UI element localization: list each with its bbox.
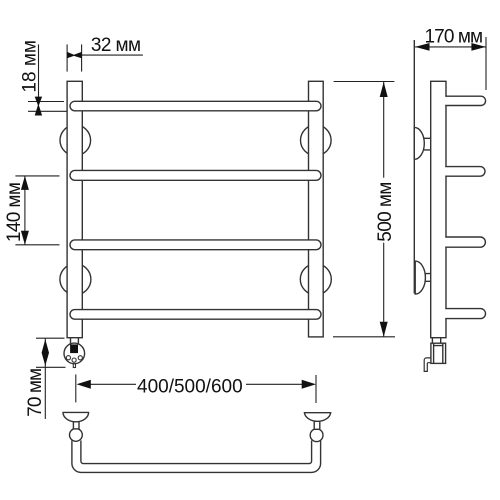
bracket circle lower-left (60, 264, 91, 295)
side bar 4 (445, 309, 447, 317)
bottom view left ball joint (70, 429, 83, 442)
dim 140mm extension line bottom (15, 244, 59, 246)
dim 400/500/600 arrow left (77, 380, 91, 389)
bar 3 front view (70, 240, 321, 250)
svg-text:170 мм: 170 мм (425, 26, 483, 47)
bracket circle upper-left (60, 125, 91, 156)
right post front view (309, 81, 324, 337)
side heating element neck (432, 338, 440, 344)
svg-text:500 мм: 500 мм (375, 182, 396, 242)
wall extension line of side view (413, 40, 415, 294)
dim 400/500/600 dimension line left segment (88, 383, 136, 385)
dim 500mm dimension line upper segment (383, 82, 385, 178)
side view post (431, 81, 446, 337)
dim 70mm extension line top (36, 337, 65, 339)
bar 1 front view (70, 101, 321, 111)
dim 140mm extension line top (15, 175, 59, 177)
dim 500mm dimension line lower segment (383, 243, 385, 337)
dim 18mm extension line top (28, 101, 64, 103)
bottom view right stem (314, 421, 320, 429)
bar 2 front view (70, 170, 321, 180)
heating element neck below left post (71, 338, 79, 344)
side terminal box inner lines (434, 343, 443, 363)
dim 32mm extension line right (81, 44, 83, 71)
svg-text:400/500/600: 400/500/600 (137, 377, 243, 398)
dim 170mm extension line right (485, 37, 487, 90)
dim 170mm dimension line (415, 46, 486, 48)
dim 140mm arrow down (21, 231, 29, 245)
side bracket neck upper (423, 138, 431, 150)
side bar 1 (445, 97, 447, 105)
side bar 3 (445, 238, 447, 247)
side bar 2 (445, 167, 447, 175)
side bracket dome upper (414, 127, 424, 159)
dim 18mm bowtie arrows (35, 97, 42, 116)
dim 32mm bowtie arrows (67, 52, 82, 58)
dim 500mm extension line bottom (333, 336, 395, 338)
dim 18mm dimension line (38, 44, 40, 101)
dim 70mm dimension line (44, 339, 46, 420)
plug pin right (78, 356, 82, 360)
bottom view tube outer outline (72, 441, 321, 473)
power cable (424, 358, 431, 372)
dim 70mm extension line bottom (36, 366, 66, 368)
plug pin middle (72, 358, 76, 362)
side bracket dome lower (415, 261, 425, 294)
dim 500mm extension line top (334, 81, 395, 83)
dim 32mm leader line (82, 54, 143, 56)
svg-text:70 мм: 70 мм (25, 369, 46, 417)
dim 70mm diamond arrows (42, 339, 49, 366)
svg-text:32 мм: 32 мм (91, 35, 141, 56)
plug pin left (66, 356, 70, 360)
side bracket neck lower (425, 274, 431, 282)
bottom view right wall cup (304, 413, 330, 422)
bar 4 front view (70, 310, 321, 320)
bottom view left stem (73, 421, 79, 429)
dim 400/500/600 dimension line right segment (246, 383, 304, 385)
dim 500mm arrow up (380, 82, 388, 97)
bottom view tube inner outline (81, 441, 312, 464)
svg-text:140 мм: 140 мм (4, 183, 25, 243)
dim 400/500/600 tick left (75, 374, 77, 402)
bracket circle lower-right (300, 264, 331, 295)
side terminal box (431, 343, 446, 363)
dim 140mm arrow up (21, 176, 29, 190)
bottom view left wall cup (63, 412, 89, 421)
dim 170mm arrow right (471, 43, 485, 51)
bracket circle upper-right (301, 125, 332, 156)
dim 18mm extension line bottom (28, 110, 67, 112)
plug stem (73, 364, 75, 368)
dim 140mm dimension line (24, 176, 26, 245)
dim 400/500/600 arrow right (302, 380, 316, 389)
dim 32mm extension line left (66, 44, 68, 71)
dim 400/500/600 tick right (315, 375, 317, 403)
svg-text:18 мм: 18 мм (20, 40, 41, 93)
bottom view right ball joint (310, 429, 323, 442)
dim 500mm arrow down (380, 322, 388, 337)
electric plug body (64, 343, 85, 364)
dim 170mm arrow left (415, 43, 429, 51)
plug black connector block (70, 344, 78, 353)
left post front view (67, 81, 82, 337)
